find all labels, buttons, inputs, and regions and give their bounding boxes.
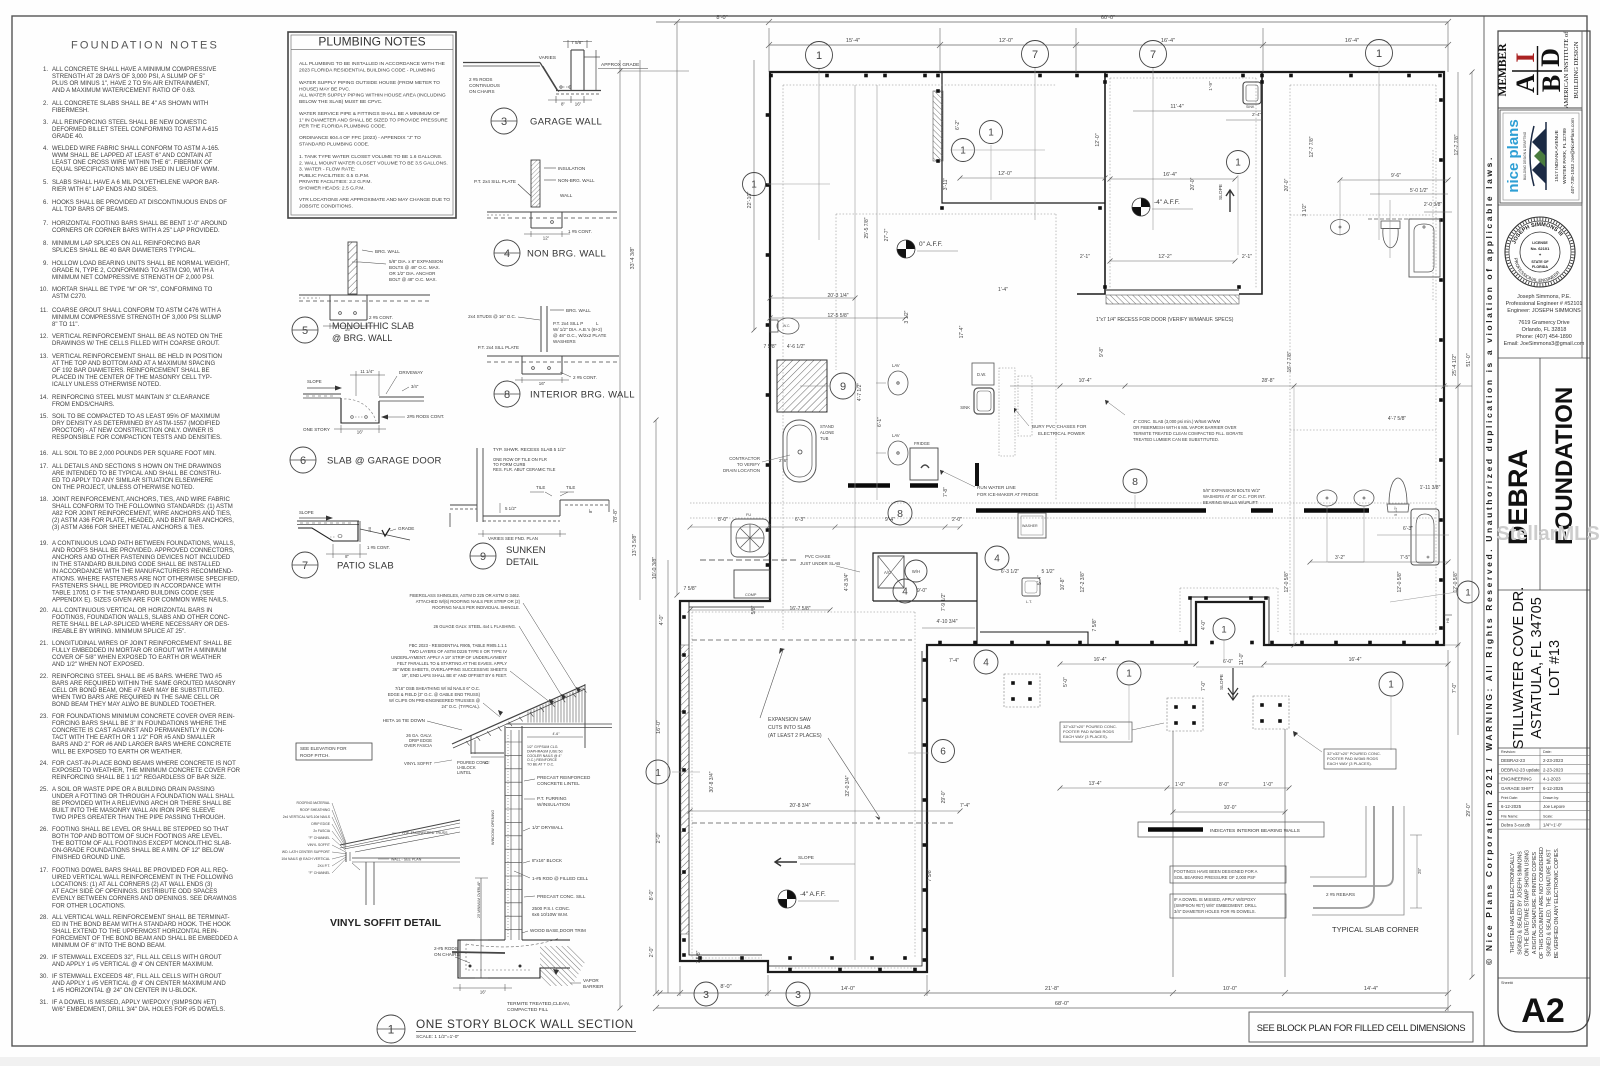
left dimension lines — [619, 60, 621, 1008]
svg-text:HETA 16 TIE DOWN: HETA 16 TIE DOWN — [383, 718, 425, 723]
svg-text:16'-4": 16'-4" — [1161, 38, 1175, 44]
svg-text:7'-8": 7'-8" — [943, 487, 949, 497]
svg-text:SINK: SINK — [960, 405, 970, 410]
svg-text:nice plans: nice plans — [1505, 119, 1522, 192]
svg-text:9'-6": 9'-6" — [1391, 173, 1401, 179]
svg-text:PLACED IN THE CENTER OF THE MA: PLACED IN THE CENTER OF THE MASONRY CELL… — [52, 375, 212, 381]
svg-text:19", END LAPS SHALL BE 6" AND: 19", END LAPS SHALL BE 6" AND OFFSET BY … — [402, 673, 507, 678]
svg-text:3.: 3. — [43, 120, 48, 126]
svg-text:SOIL TO BE COMPACTED TO AS LEA: SOIL TO BE COMPACTED TO AS LEAST 95% OF … — [52, 414, 220, 420]
svg-text:FOR ICE-MAKER AT FRIDGE: FOR ICE-MAKER AT FRIDGE — [977, 492, 1039, 497]
svg-text:8.: 8. — [43, 241, 48, 247]
svg-text:28'-8": 28'-8" — [1262, 378, 1275, 384]
svg-text:SINK: SINK — [1246, 105, 1255, 109]
svg-text:1. TANK TYPE WATER CLOSET VOLU: 1. TANK TYPE WATER CLOSET VOLUME TO BE 1… — [299, 154, 442, 160]
svg-text:DEBRA2-23: DEBRA2-23 — [1501, 758, 1525, 763]
svg-text:EQUAL SPECIFICATIONS MAY BE US: EQUAL SPECIFICATIONS MAY BE USED IN LIEU… — [52, 167, 219, 173]
svg-text:HORIZONTAL FOOTING BARS SHALL: HORIZONTAL FOOTING BARS SHALL BE BENT 1'… — [52, 221, 228, 227]
svg-text:IF A DOWEL IS MISSED, APPLY W/: IF A DOWEL IS MISSED, APPLY W/EPOXY (SIM… — [52, 1000, 216, 1006]
svg-text:7'-0": 7'-0" — [1201, 681, 1207, 691]
svg-text:PRECAST CONC. SILL: PRECAST CONC. SILL — [537, 894, 586, 899]
svg-text:PLUMBING NOTES: PLUMBING NOTES — [318, 35, 425, 49]
svg-text:Revision:: Revision: — [1501, 750, 1516, 754]
svg-text:WHEN TWO BARS ARE REQUIRED IN: WHEN TWO BARS ARE REQUIRED IN THE SAME C… — [52, 695, 220, 701]
svg-text:FU: FU — [746, 513, 751, 517]
svg-text:5/8" EXPANSION BOLTS W/2": 5/8" EXPANSION BOLTS W/2" — [1203, 488, 1261, 493]
svg-text:1 #5 CONT.: 1 #5 CONT. — [568, 229, 592, 234]
svg-text:P.T. FURRING: P.T. FURRING — [537, 796, 567, 801]
svg-text:16'-4": 16'-4" — [1163, 172, 1177, 178]
svg-text:ROOFING NAILS PER INDIVIDUAL S: ROOFING NAILS PER INDIVIDUAL SHINGLE. — [432, 605, 520, 610]
svg-text:VERTICAL REINFORCEMENT SHALL B: VERTICAL REINFORCEMENT SHALL BE AS NOTED… — [52, 334, 223, 340]
svg-text:2'-0": 2'-0" — [656, 833, 662, 844]
svg-text:TACT WITH THE EARTH OR 1 1/2": TACT WITH THE EARTH OR 1 1/2" FOR #5 AND… — [52, 735, 216, 741]
svg-text:BRG. WALL: BRG. WALL — [375, 249, 400, 254]
svg-text:31.: 31. — [40, 1000, 49, 1006]
svg-text:LINTEL: LINTEL — [457, 770, 472, 775]
svg-text:WELDED WIRE FABRIC SHALL CONFO: WELDED WIRE FABRIC SHALL CONFORM TO ASTM… — [52, 146, 220, 152]
svg-text:VAPOR: VAPOR — [583, 978, 599, 983]
svg-text:8: 8 — [1132, 476, 1138, 488]
svg-text:SPLICES SHALL BE 40 BAR DIAMET: SPLICES SHALL BE 40 BAR DIAMETERS TYPICA… — [52, 248, 196, 254]
svg-text:FIBERGLASS SHINGLES, ASTM D 22: FIBERGLASS SHINGLES, ASTM D 225 OR ASTM … — [409, 593, 520, 598]
svg-text:DRAIN LOCATION: DRAIN LOCATION — [723, 468, 760, 473]
svg-text:UNDERLAYMENT. APPLY A 19" STRI: UNDERLAYMENT. APPLY A 19" STRIP OF UNDER… — [391, 655, 507, 660]
svg-text:TILE: TILE — [566, 485, 575, 490]
svg-text:WINDOW OPENING: WINDOW OPENING — [491, 810, 495, 845]
svg-text:AND ROOFS SHALL BE PROVIDED. A: AND ROOFS SHALL BE PROVIDED. APPROVED CO… — [52, 548, 235, 554]
svg-text:22.: 22. — [40, 674, 49, 680]
washer — [1018, 513, 1046, 538]
svg-text:3/8: 3/8 — [368, 527, 372, 532]
svg-text:RUN WATER LINE: RUN WATER LINE — [977, 485, 1016, 490]
svg-text:ATIONS. WHERE FASTENERS ARE NO: ATIONS. WHERE FASTENERS ARE NOT OTHERWIS… — [52, 576, 239, 582]
dim line tick slashes — [768, 316, 773, 321]
svg-text:A2: A2 — [1521, 992, 1564, 1030]
svg-text:CONTINUOUS: CONTINUOUS — [469, 83, 500, 88]
svg-text:(2) ASTM A36 FOR PLATE, HEADED: (2) ASTM A36 FOR PLATE, HEADED, AND BENT… — [52, 518, 234, 524]
svg-text:1: 1 — [388, 1022, 395, 1036]
svg-text:EVENLY BETWEEN CORNERS AND OPE: EVENLY BETWEEN CORNERS AND OPENINGS. SEE… — [52, 896, 237, 902]
svg-text:BURY PVC CHASES FOR: BURY PVC CHASES FOR — [1032, 424, 1087, 429]
svg-text:Drawn by:: Drawn by: — [1543, 796, 1559, 800]
svg-text:BOLT @ 48" O.C. MAX.: BOLT @ 48" O.C. MAX. — [389, 277, 437, 282]
svg-text:INSULATION: INSULATION — [558, 166, 585, 171]
svg-text:ONE STORY: ONE STORY — [303, 427, 330, 432]
svg-text:407-739-1933 Joe@NicePlans.com: 407-739-1933 Joe@NicePlans.com — [1570, 118, 1576, 194]
footer pad callout boxes — [1060, 722, 1132, 742]
svg-text:AT THE TOP AND BOTTOM AND AT A: AT THE TOP AND BOTTOM AND AT A MAXIMUM S… — [52, 361, 215, 367]
svg-text:BUILT INTO THE MASONRY WALL AN: BUILT INTO THE MASONRY WALL AN IRON PIPE… — [52, 808, 215, 814]
svg-text:2-23-2023: 2-23-2023 — [1543, 758, 1564, 763]
svg-text:DEBRA2-23 update: DEBRA2-23 update — [1501, 767, 1540, 772]
svg-text:PUBLIC FACILITIES: 0.5 G.P.M: PUBLIC FACILITIES: 0.5 G.P.M. — [299, 173, 369, 179]
svg-text:ED TO APPLY TO ANY SIMILAR SIT: ED TO APPLY TO ANY SIMILAR SITUATION ELS… — [52, 478, 213, 484]
svg-text:SLAB @ GARAGE DOOR: SLAB @ GARAGE DOOR — [327, 456, 442, 467]
svg-text:COOLER NAILS @ 4": COOLER NAILS @ 4" — [527, 754, 562, 758]
svg-text:Professional Engineer # #52101: Professional Engineer # #52101 — [1506, 301, 1583, 307]
svg-text:(3) ASTM A366 FOR SHEET METAL: (3) ASTM A366 FOR SHEET METAL ANCHORS & … — [52, 525, 205, 531]
svg-text:4'-6": 4'-6" — [553, 732, 561, 736]
svg-text:12'-0": 12'-0" — [999, 38, 1013, 44]
svg-text:FOUNDATION NOTES: FOUNDATION NOTES — [71, 40, 219, 52]
svg-text:EDGE & FIELD (3" O.C. @ GABLE: EDGE & FIELD (3" O.C. @ GABLE END TRUSS) — [388, 692, 481, 697]
svg-text:3/4" DIAMETER HOLES FOR #5 DOW: 3/4" DIAMETER HOLES FOR #5 DOWELS. — [1174, 909, 1256, 914]
svg-text:FOOTING DOWEL BARS SHALL BE PR: FOOTING DOWEL BARS SHALL BE PROVIDED FOR… — [52, 868, 228, 874]
svg-text:2'-6": 2'-6" — [779, 458, 788, 463]
svg-text:ON THE DATE/TIME STAMP SHOWN U: ON THE DATE/TIME STAMP SHOWN USING — [1525, 850, 1531, 956]
svg-text:5 1/2": 5 1/2" — [1042, 569, 1055, 575]
svg-text:2'-0 3/8": 2'-0 3/8" — [1424, 202, 1443, 208]
svg-text:10.: 10. — [40, 287, 49, 293]
svg-text:8'-0": 8'-0" — [718, 517, 728, 523]
svg-text:7'-0": 7'-0" — [1452, 683, 1458, 693]
bar sink garage side — [1243, 82, 1261, 104]
svg-text:RETE SHALL BE LAP-SPLICED WHER: RETE SHALL BE LAP-SPLICED WHERE NECESSAR… — [52, 622, 229, 628]
svg-text:1'-11 3/8": 1'-11 3/8" — [1420, 485, 1441, 491]
svg-text:10'-0": 10'-0" — [1223, 986, 1237, 992]
svg-text:DEFORMED BILLET STEEL CONFORMI: DEFORMED BILLET STEEL CONFORMING TO ASTM… — [52, 127, 219, 133]
svg-text:2'-1": 2'-1" — [1242, 254, 1252, 260]
svg-text:VARIES SEE FND. PLAN: VARIES SEE FND. PLAN — [488, 536, 538, 541]
svg-text:9: 9 — [840, 381, 846, 393]
svg-text:REINFORCING STEEL SHALL BE #5: REINFORCING STEEL SHALL BE #5 BARS. WHER… — [52, 674, 222, 680]
svg-text:TILE: TILE — [536, 485, 545, 490]
svg-text:TERMITE TREATED,CLEAN,: TERMITE TREATED,CLEAN, — [507, 1001, 570, 1007]
svg-text:12'-0 5/8": 12'-0 5/8" — [1453, 571, 1459, 592]
svg-text:ALONE: ALONE — [820, 430, 834, 435]
svg-text:HB: HB — [1446, 617, 1450, 623]
svg-text:BELOW THE SLAB) MUST BE CPVC.: BELOW THE SLAB) MUST BE CPVC. — [299, 99, 383, 105]
svg-text:28.: 28. — [40, 915, 49, 921]
svg-text:(AT LEAST 2 PLACES): (AT LEAST 2 PLACES) — [768, 733, 822, 739]
svg-text:GRADE 40.: GRADE 40. — [52, 134, 84, 140]
svg-text:FOUNDATION: FOUNDATION — [1551, 387, 1578, 545]
svg-text:WATER SUPPLY PIPING OUTSIDE HO: WATER SUPPLY PIPING OUTSIDE HOUSE (FROM … — [299, 80, 440, 86]
svg-text:L.T.: L.T. — [1026, 600, 1032, 604]
svg-text:ALL WATER SUPPLY PIPING WITHIN: ALL WATER SUPPLY PIPING WITHIN HOUSE ARE… — [299, 93, 446, 99]
svg-text:2-23-2023: 2-23-2023 — [1543, 767, 1564, 772]
svg-text:LAV: LAV — [892, 433, 900, 438]
svg-text:FELT PARALLEL TO & STARTING AT: FELT PARALLEL TO & STARTING AT THE EAVES… — [397, 661, 507, 666]
svg-text:BRG. WALL: BRG. WALL — [566, 308, 591, 313]
svg-text:18.: 18. — [40, 497, 49, 503]
svg-text:5/8" DIA. x 8" EXPANSION: 5/8" DIA. x 8" EXPANSION — [389, 259, 443, 264]
svg-text:EXPANSION SAW: EXPANSION SAW — [768, 717, 811, 723]
svg-text:SLOPE: SLOPE — [1218, 184, 1224, 200]
svg-text:12.: 12. — [40, 334, 49, 340]
svg-text:CONTRACTOR: CONTRACTOR — [729, 456, 760, 461]
svg-text:SIGNED & SEALED. THE SIGNATURE: SIGNED & SEALED. THE SIGNATURE MUST — [1547, 849, 1553, 957]
svg-text:P.T. 2x4 SILL PLATE: P.T. 2x4 SILL PLATE — [478, 345, 519, 350]
svg-text:TYP. SHWR. RECESS SLAB 5 1/2": TYP. SHWR. RECESS SLAB 5 1/2" — [493, 447, 566, 452]
svg-text:1: 1 — [1376, 48, 1382, 60]
svg-text:2x FASCIA: 2x FASCIA — [313, 829, 330, 833]
svg-text:10'-8": 10'-8" — [1060, 577, 1066, 590]
svg-text:11'-0": 11'-0" — [1239, 653, 1245, 666]
svg-text:FRIDGE: FRIDGE — [914, 441, 930, 446]
svg-text:29'-0": 29'-0" — [941, 790, 947, 803]
svg-text:FOOTING SHALL BE LEVEL OR SHAL: FOOTING SHALL BE LEVEL OR SHALL BE STEPP… — [52, 827, 229, 833]
svg-text:TWO LAYERS OF ASTM D226 TYPE I: TWO LAYERS OF ASTM D226 TYPE II OR TYPE … — [409, 649, 507, 654]
svg-text:FULLY EMBEDDED IN MORTAR OR GR: FULLY EMBEDDED IN MORTAR OR GROUT WITH A… — [52, 648, 226, 654]
svg-text:3 1/2": 3 1/2" — [1302, 203, 1308, 216]
svg-text:DRAWINGS W/ THE CELLS FILLED W: DRAWINGS W/ THE CELLS FILLED WITH COARSE… — [52, 341, 220, 347]
svg-text:STATE OF: STATE OF — [1531, 260, 1549, 264]
svg-text:12'-2 3/8": 12'-2 3/8" — [1080, 571, 1086, 592]
svg-text:7: 7 — [1150, 49, 1156, 61]
svg-text:Sheet#: Sheet# — [1501, 981, 1514, 985]
svg-text:7'-4": 7'-4" — [949, 658, 959, 664]
svg-text:7'-5": 7'-5" — [1400, 555, 1410, 561]
svg-text:1'-0": 1'-0" — [1175, 782, 1185, 788]
svg-text:PVC CHASE: PVC CHASE — [805, 554, 830, 559]
svg-text:SLABS SHALL HAVE A 6 MIL POLYE: SLABS SHALL HAVE A 6 MIL POLYETHELENE VA… — [52, 180, 219, 186]
svg-text:CELL OR BOND BEAM, ONE #7 BAR: CELL OR BOND BEAM, ONE #7 BAR MAY BE SUB… — [52, 688, 224, 694]
svg-text:INDICATES INTERIOR BEARING WAL: INDICATES INTERIOR BEARING WALLS — [1210, 828, 1300, 834]
svg-text:WATER SERVICE PIPE & FITTINGS: WATER SERVICE PIPE & FITTINGS SHALL BE A… — [299, 111, 440, 117]
svg-text:SOIL BEARING PRESSURE OF 2,000: SOIL BEARING PRESSURE OF 2,000 PSF — [1174, 875, 1256, 880]
svg-text:LONGITUDINAL WIRES OF JOINT RE: LONGITUDINAL WIRES OF JOINT REINFORCEMEN… — [52, 641, 232, 647]
svg-text:2 #5 REBARS: 2 #5 REBARS — [1326, 892, 1355, 897]
svg-text:13'-4": 13'-4" — [1089, 781, 1102, 787]
shower recess hatched — [777, 360, 827, 412]
svg-text:LAV: LAV — [892, 363, 900, 368]
see block plan box — [1249, 1012, 1473, 1042]
foundation notes text — [40, 67, 241, 1013]
svg-text:MORTAR SHALL BE TYPE "M" OR "S: MORTAR SHALL BE TYPE "M" OR "S", CONFORM… — [52, 287, 213, 293]
svg-text:SLOPE: SLOPE — [307, 379, 322, 384]
svg-text:BUILDING DESIGN: BUILDING DESIGN — [1573, 41, 1580, 98]
fan FU — [731, 519, 769, 557]
svg-text:4'-10 3/4": 4'-10 3/4" — [936, 619, 957, 625]
hall bath fixtures lower right — [1317, 490, 1337, 506]
svg-text:8'-0": 8'-0" — [1219, 782, 1229, 788]
svg-text:IF STEMWALL EXCEEDS 32", FILL: IF STEMWALL EXCEEDS 32", FILL ALL CELLS … — [52, 955, 222, 961]
svg-text:SEE ELEVATION FOR: SEE ELEVATION FOR — [300, 746, 347, 751]
svg-text:14'-4": 14'-4" — [1364, 986, 1378, 992]
svg-text:SHOWER HEADS: 2.5 G.P.M.: SHOWER HEADS: 2.5 G.P.M. — [299, 186, 365, 192]
svg-text:25": 25" — [1417, 867, 1422, 874]
interior dim lines — [770, 317, 905, 319]
svg-text:BEARING WALLS W/UPLIFT: BEARING WALLS W/UPLIFT — [1203, 500, 1258, 505]
svg-text:60'-0": 60'-0" — [1101, 15, 1115, 21]
svg-text:AND 1/2" WHEN NOT EXPOSED.: AND 1/2" WHEN NOT EXPOSED. — [52, 662, 144, 668]
svg-text:14'-0": 14'-0" — [841, 986, 855, 992]
svg-text:JUST UNDER SLAB: JUST UNDER SLAB — [800, 561, 840, 566]
svg-text:16": 16" — [357, 430, 364, 435]
svg-text:SCALE: 1 1/2"=1'-0": SCALE: 1 1/2"=1'-0" — [416, 1034, 459, 1040]
sheet number — [1498, 977, 1590, 979]
svg-text:7.: 7. — [43, 221, 48, 227]
svg-text:SLOPE: SLOPE — [299, 510, 314, 515]
svg-text:JOINT REINFORCEMENT, ANCHORS,: JOINT REINFORCEMENT, ANCHORS, TIES, AND … — [52, 497, 230, 503]
svg-text:1/2" DRYWALL: 1/2" DRYWALL — [532, 825, 564, 830]
svg-text:MINIMUM COMPRESSIVE STRENGTH O: MINIMUM COMPRESSIVE STRENGTH OF 3,000 PS… — [52, 315, 221, 321]
svg-text:4-1-2023: 4-1-2023 — [1543, 777, 1561, 782]
svg-text:2.: 2. — [43, 101, 48, 107]
LT — [1022, 578, 1040, 596]
svg-text:16'-0": 16'-0" — [656, 720, 662, 734]
svg-text:6-12-2025: 6-12-2025 — [1501, 804, 1522, 809]
svg-text:SLOPE: SLOPE — [798, 855, 814, 861]
svg-text:13'-3 5/8": 13'-3 5/8" — [632, 534, 638, 557]
footer pad dotted boxes — [1004, 674, 1040, 707]
svg-text:LOCATIONS: (1) AT ALL CORNERS: LOCATIONS: (1) AT ALL CORNERS (2) AT WAL… — [52, 882, 212, 888]
member AIBD section — [1498, 107, 1582, 109]
svg-text:GRADE: GRADE — [398, 526, 414, 531]
svg-text:2X4 P.T.: 2X4 P.T. — [318, 864, 330, 868]
svg-text:1: 1 — [1388, 680, 1394, 691]
svg-text:20'-0": 20'-0" — [1190, 177, 1196, 190]
svg-text:0" A.F.F.: 0" A.F.F. — [919, 241, 943, 248]
stand alone tub — [783, 420, 816, 482]
svg-text:1: 1 — [816, 50, 822, 62]
right dimension lines — [1457, 72, 1459, 645]
svg-text:6-12-2025: 6-12-2025 — [1543, 786, 1564, 791]
comp pad — [734, 570, 770, 598]
svg-text:4'-8 3/4": 4'-8 3/4" — [844, 573, 850, 592]
svg-text:14.: 14. — [40, 395, 49, 401]
svg-text:12'-0 5/8": 12'-0 5/8" — [1397, 571, 1403, 592]
svg-text:1'-9": 1'-9" — [1208, 81, 1214, 91]
svg-text:(SIMPSON #ET) W/6" EMBEDMENT.: (SIMPSON #ET) W/6" EMBEDMENT. DRILL — [1174, 903, 1257, 908]
fridge — [910, 448, 938, 480]
svg-text:OR 1/2" DIA. ANCHOR: OR 1/2" DIA. ANCHOR — [389, 271, 436, 276]
svg-text:DRIVEWAY: DRIVEWAY — [399, 370, 423, 375]
detail 6 slab at garage door — [290, 369, 444, 473]
svg-text:FBC 2023 - RESIDENTIAL R905, T: FBC 2023 - RESIDENTIAL R905, TABLE R905.… — [409, 643, 508, 648]
svg-text:1: 1 — [1221, 624, 1226, 635]
svg-text:BE VERIFIED ON ANY ELECTRONIC: BE VERIFIED ON ANY ELECTRONIC COPIES. — [1554, 848, 1560, 959]
svg-text:ROOFING MATERIAL: ROOFING MATERIAL — [297, 801, 331, 805]
svg-text:5'-0": 5'-0" — [1063, 677, 1069, 687]
plumbing notes box — [288, 32, 456, 218]
svg-text:ROOF SHEATHING: ROOF SHEATHING — [300, 808, 331, 812]
svg-text:17'-4": 17'-4" — [959, 325, 965, 338]
detail 7 patio slab — [292, 510, 414, 578]
svg-text:8'-0": 8'-0" — [720, 984, 731, 990]
svg-text:STRENGTH AT 28 DAYS OF 3,000 P: STRENGTH AT 28 DAYS OF 3,000 PSI, A SLUM… — [52, 74, 205, 80]
svg-text:20'-8 3/4": 20'-8 3/4" — [789, 803, 810, 809]
svg-text:7 5/8": 7 5/8" — [696, 950, 702, 963]
svg-text:AND APPLY 1 #5 VERTICAL @ 4' O: AND APPLY 1 #5 VERTICAL @ 4' ON CENTER M… — [52, 962, 214, 968]
svg-text:HOLLOW LOAD BEARING UNITS SHAL: HOLLOW LOAD BEARING UNITS SHALL BE NORMA… — [52, 261, 230, 267]
svg-text:CORNERS OR CORNER BARS WITH A: CORNERS OR CORNER BARS WITH A 25" LAP PR… — [52, 228, 220, 234]
svg-text:6'-1": 6'-1" — [877, 417, 883, 427]
svg-text:7'-9 1/2": 7'-9 1/2" — [941, 593, 947, 612]
svg-text:SIGNED & SEALED BY JOSEPH SIMM: SIGNED & SEALED BY JOSEPH SIMMONS — [1517, 851, 1523, 955]
svg-text:IREABLE BY WIRING. MINIMUM SPL: IREABLE BY WIRING. MINIMUM SPLICE AT 25"… — [52, 629, 186, 635]
svg-text:SHALL CONFORM TO THE FOLLOWING: SHALL CONFORM TO THE FOLLOWING STANDARDS… — [52, 504, 233, 510]
svg-text:A DIGITAL SIGNATURE. PRINTED C: A DIGITAL SIGNATURE. PRINTED COPIES — [1532, 851, 1538, 954]
svg-text:WASHERS AT 48" O.C. FOR INT.: WASHERS AT 48" O.C. FOR INT. — [1203, 494, 1266, 499]
svg-text:TYPICAL SLAB CORNER: TYPICAL SLAB CORNER — [1332, 925, 1419, 934]
pvc chase dotted rects — [999, 368, 1015, 456]
svg-text:32'-0 3/4": 32'-0 3/4" — [845, 775, 851, 796]
svg-text:7 5/8": 7 5/8" — [927, 868, 933, 881]
svg-text:COMP: COMP — [745, 593, 757, 597]
svg-text:D.W.: D.W. — [977, 372, 986, 377]
nice plans logo box — [1500, 110, 1582, 203]
svg-text:5: 5 — [302, 325, 308, 337]
svg-text:FIBERMESH.: FIBERMESH. — [52, 108, 89, 114]
svg-text:1 #5 CONT.: 1 #5 CONT. — [367, 545, 390, 550]
bearing bar dotted guides — [690, 502, 1436, 504]
svg-text:36" WIDE SHEETS, OVERLAPPING S: 36" WIDE SHEETS, OVERLAPPING SUCCESSIVE … — [392, 667, 507, 672]
svg-text:No. 62101: No. 62101 — [1531, 246, 1550, 251]
svg-text:REINFORCING SHALL BE 1 1/2" RE: REINFORCING SHALL BE 1 1/2" REGARDLESS O… — [52, 775, 226, 781]
svg-text:ON CHAIRS: ON CHAIRS — [469, 89, 495, 94]
engineer seal — [1498, 204, 1582, 206]
svg-text:8'-0": 8'-0" — [649, 890, 655, 901]
svg-text:29'-0": 29'-0" — [1466, 803, 1472, 816]
svg-text:19.: 19. — [40, 541, 49, 547]
svg-text:FORCEMENT OF THE BOND BEAM AND: FORCEMENT OF THE BOND BEAM AND SHALL BE … — [52, 936, 239, 942]
porch column lines — [1172, 731, 1174, 977]
interior dotted slab offsets — [782, 85, 784, 630]
svg-text:8": 8" — [345, 554, 349, 559]
svg-text:OF 192 BAR DIAMETERS. REINFORC: OF 192 BAR DIAMETERS. REINFORCEMENT SHAL… — [52, 368, 210, 374]
svg-text:27'-7": 27'-7" — [884, 228, 890, 241]
svg-text:MINIMUM OF 6" INTO THE BOND BE: MINIMUM OF 6" INTO THE BOND BEAM. — [52, 943, 166, 949]
svg-text:FINISHED GROUND LINE.: FINISHED GROUND LINE. — [52, 855, 126, 861]
svg-text:8": 8" — [588, 509, 593, 513]
svg-text:16": 16" — [575, 102, 582, 107]
detail 4 non-bearing wall — [474, 160, 617, 266]
svg-text:12'-0 5/8": 12'-0 5/8" — [1284, 571, 1290, 592]
svg-text:7'-4": 7'-4" — [960, 803, 970, 809]
svg-text:Print Date:: Print Date: — [1501, 796, 1518, 800]
svg-text:CONCRETE LINTEL: CONCRETE LINTEL — [537, 781, 580, 786]
svg-text:ALL SOIL TO BE 2,000 POUNDS PE: ALL SOIL TO BE 2,000 POUNDS PER SQUARE F… — [52, 451, 216, 457]
svg-text:SEE BLOCK PLAN FOR FILLED CELL: SEE BLOCK PLAN FOR FILLED CELL DIMENSION… — [1257, 1023, 1466, 1033]
svg-text:HOOKS SHALL BE PROVIDED AT DIS: HOOKS SHALL BE PROVIDED AT DISCONTINUOUS… — [52, 200, 227, 206]
svg-text:Engineer: JOSEPH SIMMONS: Engineer: JOSEPH SIMMONS — [1507, 308, 1581, 314]
svg-text:15.: 15. — [40, 414, 49, 420]
svg-text:P.T. 2x4 SILL PLATE: P.T. 2x4 SILL PLATE — [474, 179, 516, 184]
svg-text:26 GUAGE GALV. STEEL 4x4 L FLA: 26 GUAGE GALV. STEEL 4x4 L FLASHING. — [433, 624, 516, 629]
filled cell dots on walls — [682, 74, 1443, 972]
svg-text:OVER FASCIA: OVER FASCIA — [404, 743, 432, 748]
svg-text:26.: 26. — [40, 827, 49, 833]
svg-text:RIER WITH 6" LAP ENDS AND SIDE: RIER WITH 6" LAP ENDS AND SIDES. — [52, 187, 158, 193]
svg-text:4'-7 1/2": 4'-7 1/2" — [857, 383, 863, 402]
svg-text:11 1/4": 11 1/4" — [360, 369, 374, 374]
svg-text:25'-5 7/8": 25'-5 7/8" — [864, 217, 870, 238]
svg-text:Debra 3-car.db: Debra 3-car.db — [1501, 823, 1531, 828]
svg-text:9: 9 — [480, 551, 486, 563]
svg-text:File Name:: File Name: — [1501, 814, 1518, 818]
svg-text:LICENSE: LICENSE — [1532, 241, 1548, 245]
svg-text:BUILDING DESIGN & DRAFTING: BUILDING DESIGN & DRAFTING — [1523, 131, 1527, 180]
svg-text:1517 INDIANA AVENUE: 1517 INDIANA AVENUE — [1554, 130, 1560, 182]
svg-text:Joseph Simmons, P.E.: Joseph Simmons, P.E. — [1517, 294, 1571, 300]
svg-text:7/16" OSB SHEATHING W/ 8d NAIL: 7/16" OSB SHEATHING W/ 8d NAILS 6" O.C. — [395, 686, 480, 691]
svg-text:15'-4": 15'-4" — [846, 38, 860, 44]
svg-text:CUTS INTO SLAB: CUTS INTO SLAB — [768, 725, 811, 731]
svg-text:B: B — [1537, 75, 1566, 92]
svg-text:13.: 13. — [40, 354, 49, 360]
svg-text:INTERIOR BRG. WALL: INTERIOR BRG. WALL — [530, 390, 635, 401]
svg-text:ONE STORY BLOCK WALL SECTION: ONE STORY BLOCK WALL SECTION — [416, 1017, 634, 1031]
svg-text:IN THE STANDARD BUILDING CODE: IN THE STANDARD BUILDING CODE SHALL BE I… — [52, 562, 221, 568]
svg-text:4: 4 — [983, 658, 989, 669]
svg-text:CONCRETE IS CAST AGAINST AND P: CONCRETE IS CAST AGAINST AND PERMANENTLY… — [52, 728, 224, 734]
svg-text:3'-11": 3'-11" — [943, 178, 949, 191]
svg-text:TABLE 17051 O F THE STANDARD B: TABLE 17051 O F THE STANDARD BUILDING CO… — [52, 590, 214, 596]
svg-text:8"x16" BLOCK: 8"x16" BLOCK — [532, 858, 563, 863]
